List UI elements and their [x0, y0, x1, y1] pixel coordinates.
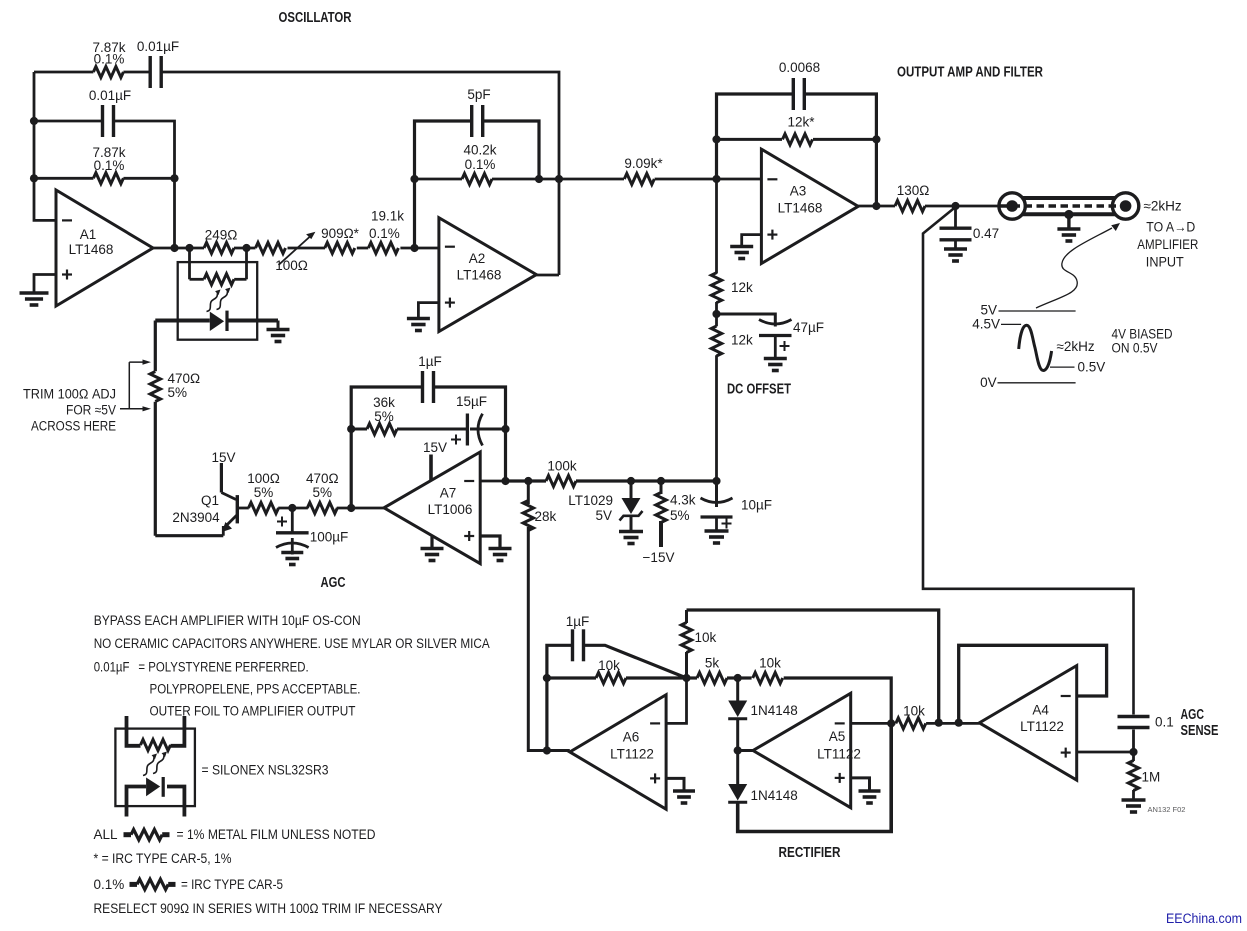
svg-text:≈2kHz: ≈2kHz	[1057, 339, 1095, 354]
waveform sine	[1019, 325, 1052, 370]
svg-text:A2: A2	[469, 251, 486, 266]
ground A1 + input	[20, 293, 49, 305]
svg-text:OUTER FOIL TO AMPLIFIER OUTPUT: OUTER FOIL TO AMPLIFIER OUTPUT	[150, 704, 356, 719]
svg-text:−15V: −15V	[643, 550, 675, 565]
wire A5 - input	[851, 722, 896, 725]
wire 28k upper	[527, 481, 530, 504]
svg-text:1N4148: 1N4148	[751, 703, 798, 718]
wire A5 fb to minus	[784, 678, 892, 723]
wire 36k row left	[351, 428, 367, 431]
junction rail-res row	[30, 174, 38, 182]
op-amp A6 LT1122	[570, 695, 666, 810]
svg-text:10k: 10k	[598, 658, 620, 673]
coax connector left	[999, 193, 1025, 219]
op-amp A4 LT1122	[979, 666, 1076, 781]
legend resistor glyph (IRC)	[130, 879, 176, 889]
svg-text:TO A→D: TO A→D	[1146, 219, 1195, 234]
legend stub top-left	[127, 716, 141, 746]
resistor 12k upper	[711, 273, 721, 303]
legend optocoupler box	[115, 729, 194, 807]
optocoupler box (NSL32SR3)	[178, 262, 258, 340]
junction A5 minus node	[887, 719, 895, 727]
junction A6 minus node	[682, 674, 690, 682]
line 5V level	[999, 310, 1076, 312]
ground A2 + input	[407, 319, 430, 331]
svg-text:4.3k: 4.3k	[670, 493, 696, 508]
plus sign 47uF	[780, 341, 790, 351]
svg-text:ALL: ALL	[94, 827, 119, 842]
svg-text:4.5V: 4.5V	[972, 317, 1000, 332]
junction coax shield tap	[1064, 210, 1073, 219]
resistor 4.3k 5%	[656, 493, 666, 523]
svg-text:INPUT: INPUT	[1146, 255, 1184, 270]
svg-text:40.2k: 40.2k	[463, 143, 496, 158]
resistor 12k lower	[711, 326, 721, 356]
svg-text:1M: 1M	[1142, 770, 1161, 785]
svg-text:OSCILLATOR: OSCILLATOR	[279, 10, 352, 26]
svg-text:15µF: 15µF	[456, 394, 487, 409]
wire A1 feedback down to output	[173, 178, 176, 248]
svg-text:5V: 5V	[980, 303, 997, 318]
svg-text:LT1122: LT1122	[610, 747, 654, 762]
resistor 909ohm*	[325, 243, 355, 254]
wire A6 fb row right	[626, 676, 687, 679]
wire A7 - input	[480, 480, 505, 483]
resistor 10k (to A4)	[896, 718, 926, 729]
wire A3 output	[858, 205, 895, 208]
svg-text:FOR ≈5V: FOR ≈5V	[66, 403, 116, 418]
svg-text:0V: 0V	[980, 375, 997, 390]
ground 0.47	[944, 249, 967, 261]
wire coax shield ground stem	[1067, 214, 1070, 228]
wire LT1029 stem	[630, 481, 633, 498]
svg-text:5%: 5%	[374, 409, 394, 424]
ground 100uF	[281, 553, 303, 565]
wire 1M to gnd	[1132, 790, 1135, 799]
wire top feedback loop left+right of R and C	[34, 71, 93, 74]
capacitor 0.0068uF	[793, 78, 804, 110]
svg-text:0.01µF: 0.01µF	[137, 39, 179, 54]
wire A4 feedback loop	[959, 645, 1107, 722]
wire 0.47 stem	[954, 206, 957, 229]
resistor 40.2k 0.1%	[462, 174, 492, 185]
svg-text:10k: 10k	[903, 704, 925, 719]
plus sign 10uF	[722, 519, 732, 529]
wire opto LED anode	[155, 319, 210, 323]
svg-text:DC OFFSET: DC OFFSET	[727, 382, 791, 398]
wire 100k to 10uF node	[576, 479, 717, 482]
transistor Q1 2N3904	[221, 493, 237, 536]
svg-text:5k: 5k	[705, 656, 720, 671]
resistor 7.87k 0.1% (top)	[93, 67, 123, 78]
svg-text:A1: A1	[80, 227, 97, 242]
ground A3 + input	[730, 247, 753, 259]
wire A4 + input	[1077, 751, 1134, 754]
junction A2 inverting node	[410, 244, 418, 252]
ground A7 negative pin	[421, 549, 444, 561]
svg-text:LT1468: LT1468	[69, 242, 114, 257]
svg-text:NO CERAMIC CAPACITORS ANYWHERE: NO CERAMIC CAPACITORS ANYWHERE. USE MYLA…	[94, 636, 490, 651]
junction opto stub left	[185, 244, 193, 252]
pot 100ohm body	[256, 243, 286, 254]
wire 12k* row left	[717, 138, 783, 141]
svg-text:= 1% METAL FILM UNLESS NOTED: = 1% METAL FILM UNLESS NOTED	[177, 827, 376, 842]
wire 1uF row	[547, 645, 573, 678]
wire 100ohm to 470ohm	[278, 507, 308, 510]
wire 10k vert stem	[685, 610, 688, 623]
svg-text:A4: A4	[1032, 703, 1049, 718]
wire 0.47 lower stem	[954, 240, 957, 248]
svg-text:= IRC TYPE CAR-5: = IRC TYPE CAR-5	[181, 877, 283, 892]
svg-text:AN132 F02: AN132 F02	[1148, 805, 1186, 814]
wire 1uF diagonal	[583, 645, 686, 678]
svg-text:9.09k*: 9.09k*	[624, 156, 663, 171]
svg-text:100Ω: 100Ω	[247, 471, 280, 486]
svg-text:12k: 12k	[731, 333, 753, 348]
trim adjust arrows	[120, 362, 144, 409]
svg-text:* = IRC TYPE CAR-5, 1%: * = IRC TYPE CAR-5, 1%	[94, 851, 232, 866]
wire D2 stem	[736, 751, 739, 785]
wire trim rail upper	[154, 321, 157, 372]
wire A2 output	[536, 274, 559, 277]
svg-text:909Ω*: 909Ω*	[321, 226, 360, 241]
resistor 10k vertical (A6)	[681, 623, 691, 653]
ground opto LED	[267, 330, 290, 342]
wire A3 fb loop top	[717, 94, 794, 179]
ground 1M	[1122, 800, 1146, 812]
svg-text:EEChina.com: EEChina.com	[1166, 911, 1242, 926]
svg-text:130Ω: 130Ω	[897, 183, 930, 198]
wire opto stub left	[188, 248, 191, 279]
wire A7 fb left vertical	[351, 387, 422, 508]
svg-text:OUTPUT AMP AND FILTER: OUTPUT AMP AND FILTER	[897, 65, 1043, 81]
wire 12k chain bottom	[715, 355, 718, 481]
svg-text:AGC: AGC	[321, 575, 346, 591]
svg-text:SENSE: SENSE	[1181, 723, 1219, 739]
opto light arrows	[207, 290, 229, 312]
svg-text:≈2kHz: ≈2kHz	[1144, 199, 1182, 214]
op-amp A5 LT1122	[753, 693, 861, 807]
wire 12k* row right	[813, 138, 876, 141]
wire 40.2k row right	[492, 178, 624, 181]
zener diode LT1029 5V	[622, 498, 641, 514]
op-amp A7 LT1006	[384, 452, 480, 564]
wire 1M stem	[1132, 752, 1135, 761]
resistor 7.87k 0.1% (A1 feedback)	[93, 173, 123, 184]
wire LED cathode drop	[277, 321, 280, 329]
svg-text:10k: 10k	[759, 656, 781, 671]
junction A7 fb tap	[347, 504, 355, 512]
svg-text:5%: 5%	[670, 508, 690, 523]
junction 5pF loop right	[535, 175, 543, 183]
resistor 12k*	[783, 134, 813, 145]
junction 100uF tap	[288, 504, 296, 512]
junction A6 fb left	[543, 674, 551, 682]
wire 4.3k to -15V	[659, 521, 663, 547]
svg-text:0.1%: 0.1%	[369, 226, 400, 241]
coax center dashed conductor	[1001, 204, 1121, 207]
wire 36k to 15uF	[397, 428, 466, 431]
junction 4.3k tap	[657, 477, 665, 485]
svg-text:TRIM 100Ω ADJ: TRIM 100Ω ADJ	[23, 387, 116, 402]
svg-text:A5: A5	[829, 729, 846, 744]
wire opto res lead left	[190, 278, 204, 281]
svg-text:47µF: 47µF	[793, 320, 824, 335]
svg-text:A7: A7	[440, 486, 457, 501]
resistor 100k	[546, 476, 576, 487]
wire 4.3k stem	[660, 481, 663, 494]
svg-text:1µF: 1µF	[566, 614, 590, 629]
svg-text:0.1%: 0.1%	[94, 877, 125, 892]
svg-text:LT1468: LT1468	[457, 268, 502, 283]
svg-text:LT1006: LT1006	[428, 502, 473, 517]
junction AGC sense node	[1129, 748, 1137, 756]
wire after 249ohm	[234, 247, 256, 250]
plus sign 100uF	[277, 517, 287, 527]
ground LT1029	[619, 532, 643, 544]
svg-text:= SILONEX NSL32SR3: = SILONEX NSL32SR3	[202, 763, 329, 778]
wire A2 fb vertical left	[415, 121, 472, 248]
op-amp A1 LT1468	[56, 190, 153, 306]
wire 10uF stem	[715, 481, 718, 507]
junction 47uF tap	[712, 310, 720, 318]
coax connector right	[1112, 193, 1138, 219]
legend stub bottom-right	[167, 787, 184, 817]
svg-text:0.47: 0.47	[973, 226, 999, 241]
svg-text:12k*: 12k*	[787, 115, 815, 130]
resistor 19.1k 0.1%	[368, 243, 398, 254]
svg-text:5%: 5%	[168, 385, 188, 400]
junction 12k* right	[872, 135, 880, 143]
svg-text:36k: 36k	[373, 395, 395, 410]
wire Q1 emitter to rail	[155, 534, 223, 537]
wire A3 fb loop right	[805, 94, 877, 206]
resistor 470ohm 5% (trim)	[150, 372, 160, 402]
svg-text:28k: 28k	[535, 509, 557, 524]
junction A3 minus node	[712, 175, 720, 183]
wire A3 + input to ground	[742, 235, 762, 245]
svg-text:100k: 100k	[547, 459, 577, 474]
wire 0.1 to node	[1132, 730, 1135, 753]
wire opto LED cathode	[227, 319, 278, 323]
junction 12k* left	[712, 135, 720, 143]
wire rectifier bottom loop	[738, 723, 892, 831]
legend LED diode	[146, 777, 163, 797]
svg-text:LT1468: LT1468	[778, 201, 823, 216]
svg-text:0.1%: 0.1%	[465, 157, 496, 172]
wire A5 fb lead left	[738, 676, 752, 679]
wire A7 fb top right	[434, 387, 506, 481]
resistor 130ohm	[895, 201, 925, 212]
svg-text:15V: 15V	[211, 450, 235, 465]
wire 15uF to right vert	[470, 428, 506, 431]
svg-text:0.1%: 0.1%	[94, 52, 125, 67]
wire A1 inverting rail	[34, 72, 56, 220]
svg-text:15V: 15V	[423, 440, 447, 455]
wire A7 + input	[480, 536, 500, 547]
wire A6 + input	[666, 778, 684, 789]
wire trim rail lower	[154, 402, 157, 536]
svg-text:19.1k: 19.1k	[371, 209, 404, 224]
svg-text:LT1122: LT1122	[1020, 719, 1064, 734]
resistor 1M	[1128, 761, 1138, 791]
junction rectifier node	[734, 674, 742, 682]
wire A1 res feedback row left	[34, 177, 93, 180]
junction A6 loop tap	[935, 719, 943, 727]
capacitor 100uF	[276, 533, 309, 555]
wire 470ohm to A7	[337, 507, 384, 510]
svg-text:249Ω: 249Ω	[205, 228, 238, 243]
svg-text:LT1122: LT1122	[817, 747, 861, 762]
svg-text:100Ω: 100Ω	[275, 258, 308, 273]
plus sign 15uF	[451, 435, 461, 445]
wire 9.09k to A3	[655, 178, 762, 181]
ground 47uF	[764, 359, 787, 371]
svg-text:0.1%: 0.1%	[94, 158, 125, 173]
svg-text:AMPLIFIER: AMPLIFIER	[1137, 237, 1198, 252]
resistor 5k	[697, 673, 727, 684]
junction A4 fb tap	[955, 719, 963, 727]
svg-text:2N3904: 2N3904	[172, 510, 220, 525]
svg-text:5V: 5V	[595, 508, 612, 523]
junction res row right	[170, 174, 178, 182]
wire 10k vert to node	[685, 652, 688, 678]
svg-text:RESELECT 909Ω IN SERIES WITH 1: RESELECT 909Ω IN SERIES WITH 100Ω TRIM I…	[94, 901, 443, 916]
capacitor 15uF	[467, 414, 482, 446]
junction A6 fb tap	[543, 746, 551, 754]
svg-text:POLYPROPELENE, PPS ACCEPTABLE.: POLYPROPELENE, PPS ACCEPTABLE.	[150, 682, 361, 697]
resistor 249ohm	[204, 243, 234, 254]
wire A2 fb vertical right	[483, 121, 539, 179]
wire A1 cap feedback row right	[114, 121, 175, 178]
wire A1 cap feedback row left	[34, 120, 103, 123]
svg-text:BYPASS EACH AMPLIFIER WITH 10µ: BYPASS EACH AMPLIFIER WITH 10µF OS-CON	[94, 613, 361, 628]
diode 1N4148 lower	[728, 784, 747, 802]
junction A1 fb tap	[170, 244, 178, 252]
svg-text:10k: 10k	[695, 630, 717, 645]
wire 12k chain top	[715, 179, 718, 274]
svg-text:LT1029: LT1029	[568, 493, 613, 508]
junction A5 output node	[734, 746, 742, 754]
pot 100ohm arrow	[279, 232, 316, 265]
resistor 28k	[523, 501, 533, 531]
wire 5k lead left	[687, 676, 698, 679]
capacitor 5pF	[472, 105, 483, 137]
junction opto stub right	[242, 244, 250, 252]
svg-text:12k: 12k	[731, 280, 753, 295]
wire 12k chain mid	[715, 302, 718, 326]
wire A5 output	[738, 749, 753, 752]
ground coax shield	[1057, 229, 1080, 241]
wire Q1 base	[239, 507, 249, 510]
wire D1 to A5 out	[736, 720, 739, 751]
junction 40.2k left	[410, 175, 418, 183]
legend stub bottom-left	[127, 787, 147, 817]
svg-text:470Ω: 470Ω	[168, 371, 201, 386]
wire 40.2k row left	[415, 178, 463, 181]
wire 5k lead right	[727, 676, 738, 679]
op-amp A2 LT1468	[439, 218, 537, 332]
wire top loop mid	[123, 71, 150, 74]
svg-text:0.1: 0.1	[1155, 715, 1174, 730]
resistor 10k (A6 feedback)	[596, 673, 626, 684]
coax shield lines	[1022, 198, 1116, 214]
capacitor 1uF (A7)	[423, 371, 434, 403]
svg-text:0.5V: 0.5V	[1078, 360, 1106, 375]
svg-text:A3: A3	[790, 184, 807, 199]
wire opto stub right	[245, 248, 248, 279]
svg-text:0.01µF: 0.01µF	[89, 88, 131, 103]
junction 28k tap	[524, 477, 532, 485]
svg-text:5%: 5%	[313, 485, 333, 500]
line 0V level	[998, 382, 1076, 384]
legend stub top-right	[171, 716, 185, 746]
svg-text:5pF: 5pF	[467, 87, 490, 102]
wire A5 + input	[851, 778, 870, 790]
wire 19.1k to A2 -	[400, 247, 439, 250]
line 0.5V tick	[1050, 366, 1075, 368]
svg-text:ON 0.5V: ON 0.5V	[1112, 341, 1158, 356]
wire pot to 909	[288, 247, 326, 250]
wire A7 15V pin	[429, 455, 433, 481]
capacitor 0.47	[940, 228, 972, 240]
diode 1N4148 upper	[728, 701, 747, 719]
svg-text:10µF: 10µF	[741, 498, 772, 513]
wire opto res lead right	[234, 278, 246, 281]
op-amp A3 LT1468	[761, 149, 858, 263]
wire A6 fb row left	[547, 676, 596, 679]
wire A7 output row	[506, 479, 547, 482]
ground A7 + input	[489, 549, 512, 561]
wire A2 + input to ground	[418, 303, 439, 317]
resistor 10k (A5 feedback)	[753, 673, 783, 684]
opto photoresistor	[204, 274, 234, 285]
junction 36k row left	[347, 425, 355, 433]
wire 909 to 19.1k	[357, 247, 369, 250]
capacitor 1uF (A6)	[573, 629, 584, 661]
ground A5 + input	[859, 791, 881, 803]
junction A2 out vertical	[555, 175, 563, 183]
wire A1 output	[153, 247, 204, 250]
svg-text:5%: 5%	[254, 485, 274, 500]
legend photoresistor	[141, 740, 171, 751]
junction rail-cap row	[30, 117, 38, 125]
opto LED diode	[210, 311, 227, 331]
wire A6 10k top loop	[687, 610, 939, 723]
ground A6 + input	[673, 791, 695, 803]
svg-text:AGC: AGC	[1181, 707, 1205, 723]
wire A1 res feedback row right	[123, 177, 174, 180]
wire 100uF stem	[291, 508, 294, 532]
junction LT1029 tap	[627, 477, 635, 485]
junction A7 minus node	[501, 477, 509, 485]
svg-text:1N4148: 1N4148	[751, 788, 798, 803]
wire D1 stem	[736, 678, 739, 701]
svg-text:A6: A6	[623, 730, 640, 745]
legend resistor glyph (metal film)	[124, 830, 170, 840]
wire Q1 collector	[220, 463, 223, 493]
ground 10uF	[705, 531, 729, 543]
wire 10k to A4 tip	[926, 722, 979, 725]
wire top loop to A2 output vertical	[161, 72, 559, 275]
svg-text:470Ω: 470Ω	[306, 471, 339, 486]
junction output node	[951, 202, 959, 210]
wire 28k down to A6 output	[528, 527, 570, 751]
svg-text:4V BIASED: 4V BIASED	[1112, 327, 1173, 342]
svg-text:0.01µF = POLYSTYRENE PERFERRE: 0.01µF = POLYSTYRENE PERFERRED.	[94, 660, 309, 675]
capacitor 0.1 AGC sense	[1118, 717, 1150, 728]
resistor 100ohm 5% (AGC)	[249, 503, 279, 514]
